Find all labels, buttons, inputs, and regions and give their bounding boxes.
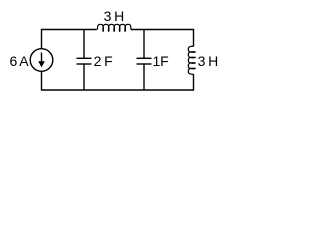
svg-text:3 H: 3 H [198,53,218,69]
current source arrow shaft [41,53,43,63]
svg-text:F: F [160,53,168,69]
svg-text:3 H: 3 H [104,8,124,24]
current source I1 circle [30,49,53,72]
wire: left vertical top [41,29,43,49]
wire: left vertical bottom [41,71,43,90]
wire: right vertical top [193,29,195,47]
capacitor C1 2 F lead top [83,30,85,59]
capacitor C1 plate bottom [77,63,92,65]
inductor L2 3 H (right, vertical coil) [188,46,195,74]
wire: right vertical bottom [193,74,195,91]
current source arrowhead [38,61,45,67]
svg-text:6 A: 6 A [10,53,30,69]
wire: top-right horizontal segment [131,29,194,31]
capacitor C2 plate top [137,57,152,59]
capacitor C2 plate bottom [137,63,152,65]
capacitor C2 1 F lead top [143,30,145,59]
capacitor C2 lead bottom [143,64,145,90]
inductor L1 3 H (top, horizontal coil) [97,24,130,31]
capacitor C1 lead bottom [83,64,85,90]
wire: bottom horizontal [42,89,194,91]
wire: top-left horizontal segment [42,29,97,31]
svg-text:2 F: 2 F [94,53,113,69]
capacitor C1 plate top [77,57,92,59]
